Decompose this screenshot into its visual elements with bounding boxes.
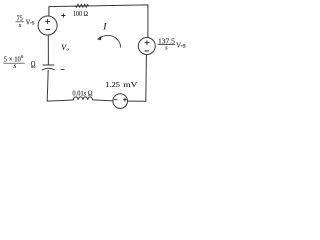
svg-text:0.01s Ω: 0.01s Ω <box>72 91 92 98</box>
current arrow head <box>97 36 102 40</box>
svg-text:s: s <box>19 22 22 29</box>
fraction bar 137.5/s <box>158 44 175 46</box>
svg-text:o: o <box>67 47 70 52</box>
svg-text:V-s: V-s <box>176 41 186 50</box>
source V1 circle (75/s V-s) <box>38 16 57 35</box>
fraction bar 75/s <box>16 21 24 23</box>
inductor L 0.01s <box>73 97 92 100</box>
svg-text:6: 6 <box>21 54 24 59</box>
minus inside V1 <box>46 29 50 31</box>
plus Vo polarity <box>62 15 65 17</box>
minus Vo polarity <box>61 69 64 71</box>
current arrow I arc <box>100 35 121 47</box>
plus inside V3 <box>123 99 126 101</box>
svg-text:100 Ω: 100 Ω <box>73 9 88 18</box>
capacitor C top plate <box>43 64 54 66</box>
svg-text:I: I <box>102 23 107 33</box>
wire capacitor to left source <box>47 35 49 65</box>
wire bottom mid segment <box>93 100 114 101</box>
resistor R 100 ohm zigzag <box>75 4 88 7</box>
wire bottom right segment <box>128 100 146 102</box>
capacitor C bottom plate (curved) <box>42 68 54 70</box>
plus inside V1 <box>46 20 50 22</box>
minus inside V2 <box>145 50 149 52</box>
wire right column lower <box>145 55 148 102</box>
plus inside V2 <box>145 42 149 44</box>
svg-text:s: s <box>14 62 17 70</box>
svg-text:s: s <box>165 44 168 51</box>
svg-text:V-s: V-s <box>26 18 35 27</box>
svg-text:mV: mV <box>123 80 138 89</box>
source V2 circle (137.5/s V-s) <box>138 38 155 55</box>
source V3 circle (1.25 mV) <box>113 94 128 109</box>
svg-text:1.25: 1.25 <box>105 80 120 89</box>
svg-text:5 × 10: 5 × 10 <box>4 54 21 63</box>
fraction bar 5x10^6/s <box>4 62 25 64</box>
svg-text:Ω: Ω <box>31 60 36 70</box>
minus inside V3 <box>114 99 117 101</box>
wire top loop: left stub, top run, right drop <box>49 5 148 38</box>
wire bottom left segment and left column lower <box>47 70 73 101</box>
